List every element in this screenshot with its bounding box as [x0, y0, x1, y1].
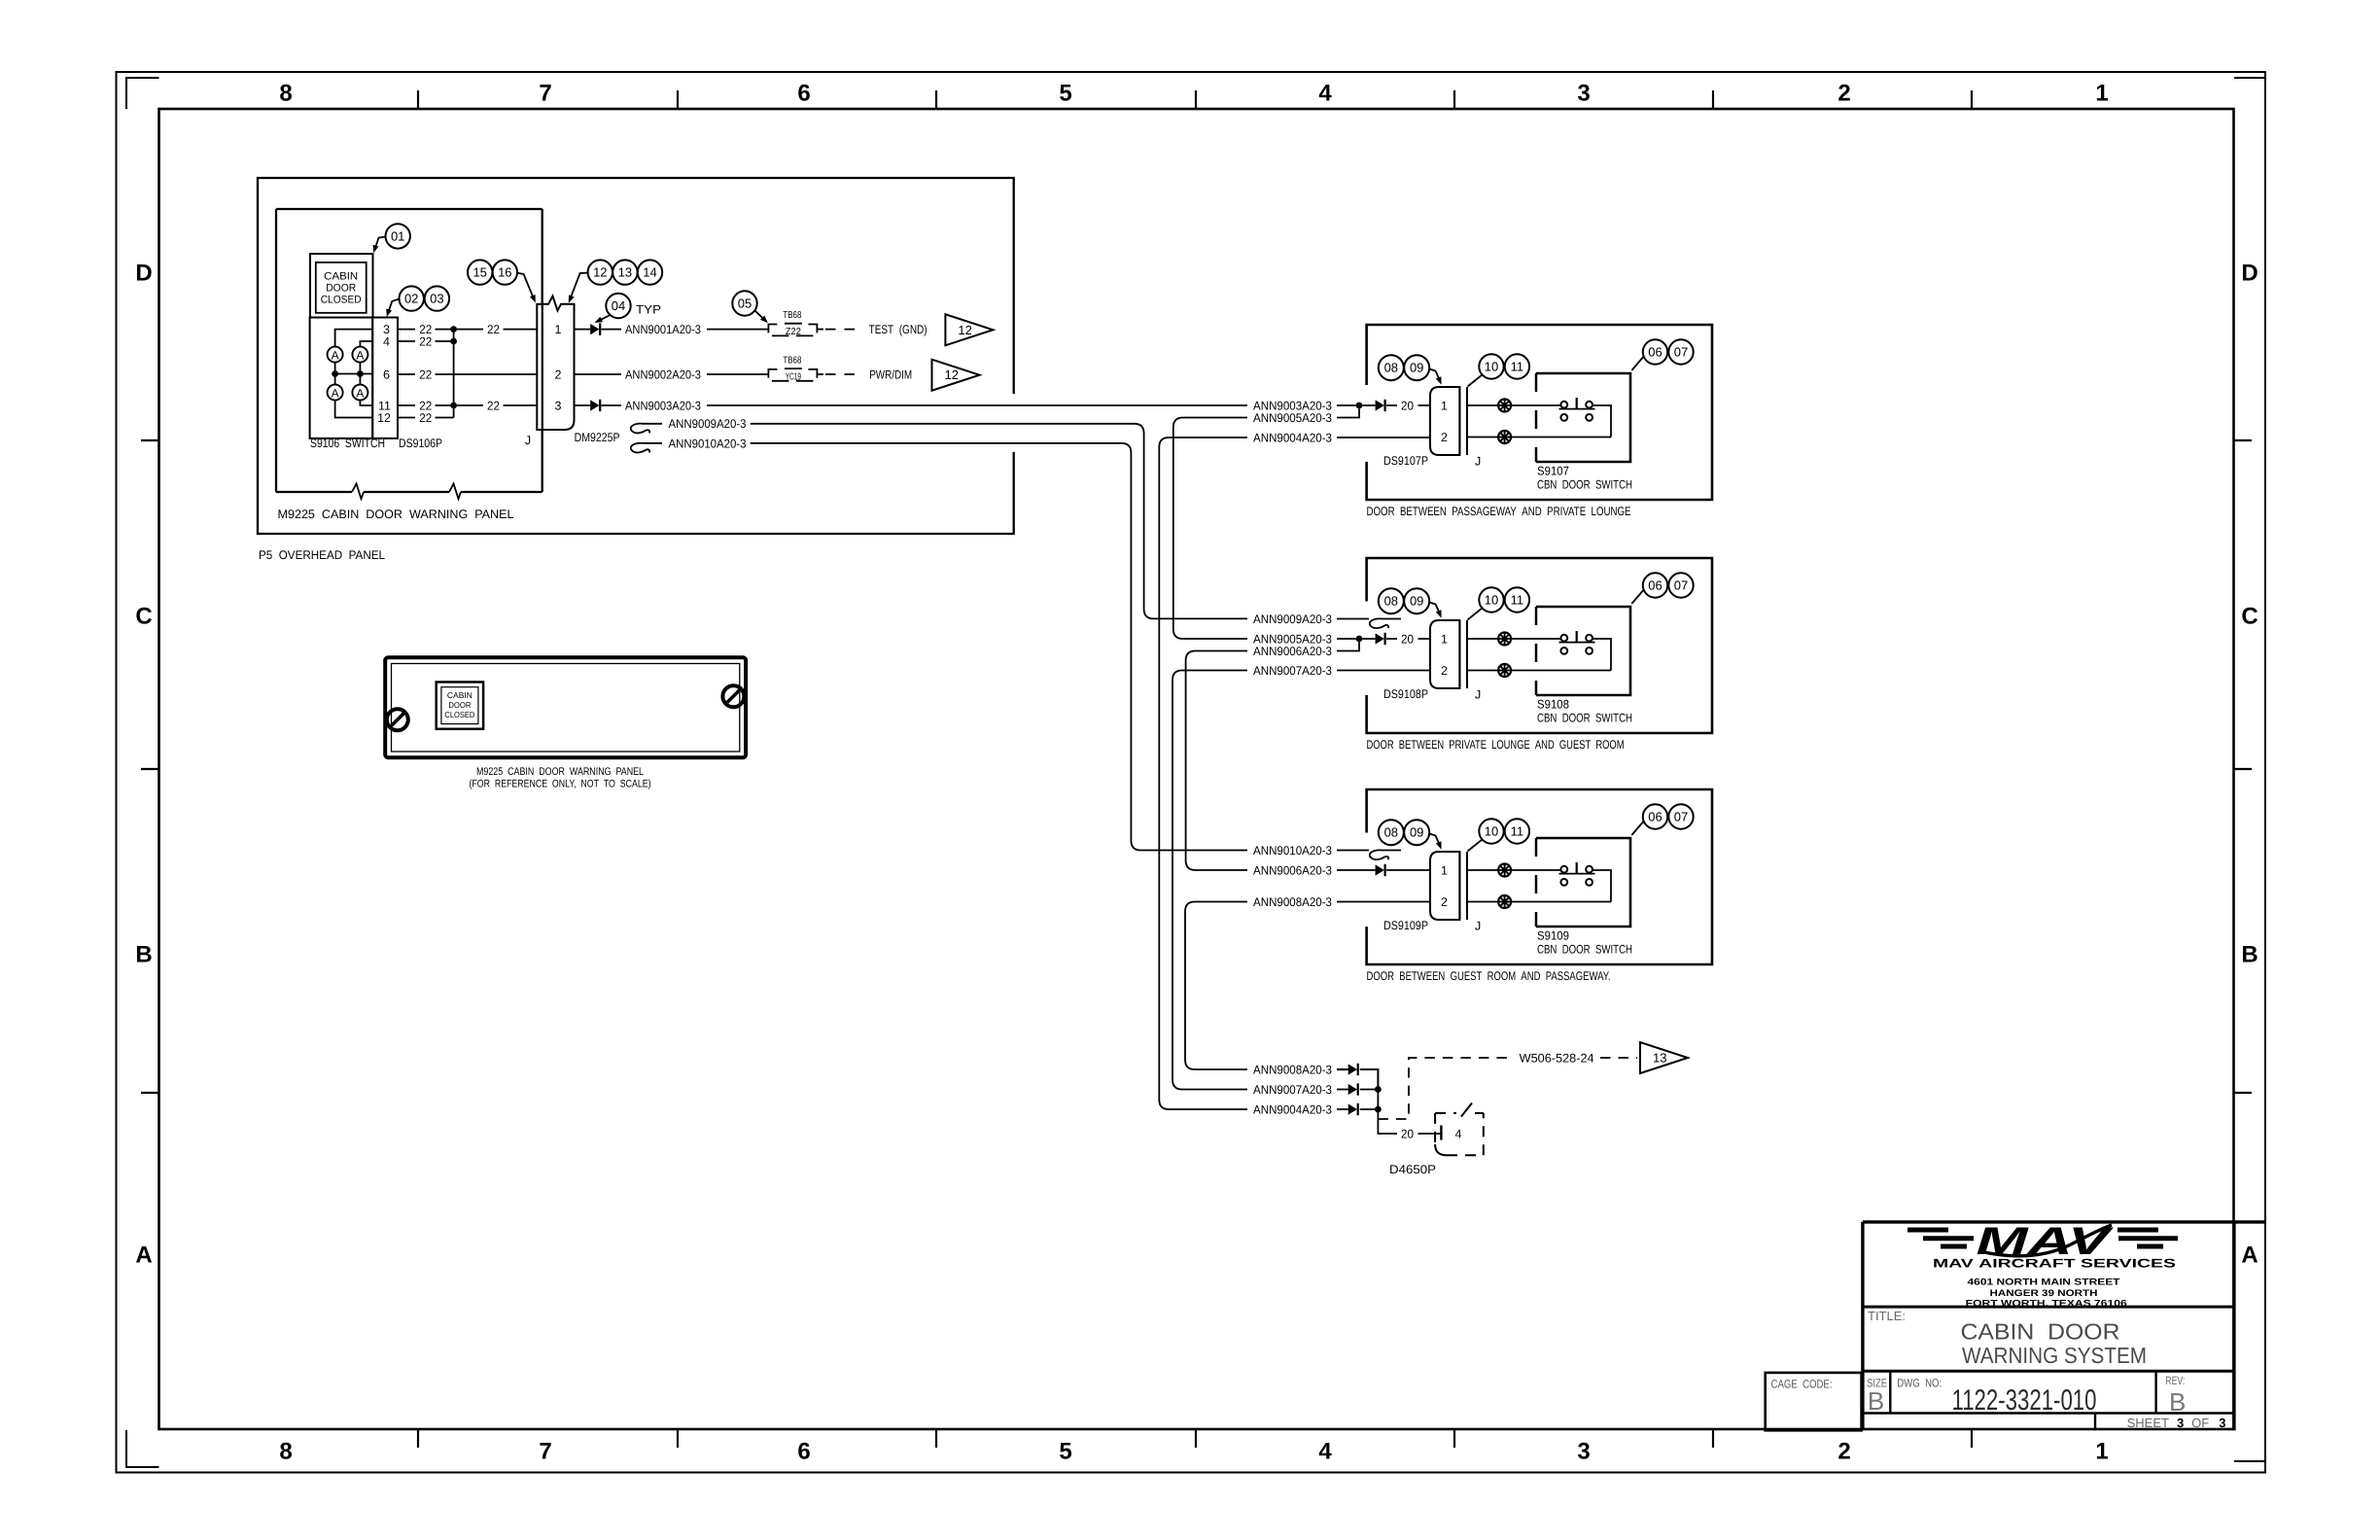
wire lamp A2 to pin6 bus [359, 363, 361, 374]
door 1 boundary box [1367, 325, 1712, 500]
break mark on M9225 box bottom right [449, 484, 461, 500]
diode ANN9007 [1348, 1084, 1357, 1095]
wire pin1 DS9107P to switch [1467, 404, 1498, 406]
callout 07 door 1 [1668, 339, 1693, 364]
wire seal pin1 S9107 [1498, 400, 1511, 412]
P5 overhead panel boundary box [258, 178, 1014, 534]
svg-text:A: A [2241, 1242, 2257, 1269]
svg-text:DOOR: DOOR [448, 700, 471, 710]
wire ANN9005 door1 to door2 [1173, 418, 1247, 640]
corner trim mark top-left [126, 78, 159, 109]
wire seal pin1 S9108 [1498, 633, 1511, 646]
svg-text:ANN9002A20-3: ANN9002A20-3 [625, 367, 701, 381]
svg-text:CABIN: CABIN [447, 690, 472, 700]
screw right [722, 685, 744, 707]
svg-text:4601 NORTH MAIN STREET: 4601 NORTH MAIN STREET [1968, 1277, 2120, 1288]
svg-text:A: A [356, 348, 364, 362]
svg-text:2: 2 [555, 368, 562, 382]
wire seal pin2 S9107 [1498, 431, 1511, 443]
svg-text:4: 4 [383, 335, 390, 349]
break mark on M9225 box bottom left [352, 484, 364, 500]
svg-text:S9109: S9109 [1537, 929, 1569, 943]
svg-text:12: 12 [958, 323, 971, 337]
switch S9108 contacts [1560, 635, 1567, 642]
callout 06 door 2 [1643, 573, 1667, 597]
svg-text:7: 7 [539, 1439, 551, 1465]
svg-text:ANN9010A20-3: ANN9010A20-3 [1253, 844, 1332, 857]
switch S9108 boundary box [1535, 607, 1538, 695]
svg-text:WARNING SYSTEM: WARNING SYSTEM [1962, 1343, 2147, 1368]
svg-text:TB68: TB68 [783, 310, 801, 321]
svg-text:DOOR BETWEEN PASSAGEWAY AND: DOOR BETWEEN PASSAGEWAY AND PRIVATE LOUN… [1367, 505, 1631, 518]
svg-text:CAGE CODE:: CAGE CODE: [1771, 1378, 1833, 1391]
svg-text:05: 05 [738, 297, 752, 311]
leader 10 door 1 [1468, 375, 1483, 387]
svg-text:ANN9007A20-3: ANN9007A20-3 [1253, 1083, 1332, 1097]
svg-text:ANN9006A20-3: ANN9006A20-3 [1253, 863, 1332, 877]
svg-text:3: 3 [1577, 81, 1590, 107]
svg-text:2: 2 [1441, 431, 1448, 444]
wire pin6 bus to lamp A3 [334, 374, 336, 385]
diode ANN9001 [590, 324, 599, 334]
svg-text:2: 2 [1837, 81, 1850, 107]
connector DS9108P plug body [1430, 620, 1459, 688]
wire lamp A1 to pin6 bus [334, 363, 336, 374]
callout 06 door 3 [1643, 804, 1667, 828]
svg-text:A: A [356, 386, 364, 400]
svg-text:09: 09 [1410, 825, 1423, 840]
svg-text:6: 6 [383, 368, 390, 382]
svg-text:4: 4 [1455, 1128, 1462, 1141]
flag 12 sheet reference PWR/DIM [932, 360, 980, 391]
svg-text:A: A [332, 348, 339, 362]
svg-text:6: 6 [797, 1439, 810, 1465]
leader 06 door 2 [1631, 590, 1643, 604]
svg-text:04: 04 [612, 298, 625, 313]
callout 08 door 1 [1379, 355, 1404, 380]
svg-text:A: A [135, 1242, 152, 1269]
wire ANN9007 to diode [1337, 1089, 1348, 1091]
svg-text:06: 06 [1648, 810, 1662, 824]
connector J socket of DS9108P [1458, 620, 1460, 688]
wire ANN9008 door3 to bottom [1185, 902, 1247, 1070]
svg-text:CBN DOOR SWITCH: CBN DOOR SWITCH [1537, 943, 1632, 957]
callout 15 [468, 260, 492, 284]
wire ANN9001 row [575, 329, 591, 331]
svg-text:DOOR: DOOR [326, 283, 356, 295]
svg-text:20: 20 [1401, 1127, 1414, 1140]
svg-text:08: 08 [1384, 594, 1398, 609]
callout 10 door 2 [1479, 587, 1503, 612]
svg-text:TYP: TYP [636, 303, 661, 317]
junction dot pin3 bus [450, 326, 457, 332]
dashed wire W506-528-24 [1378, 1058, 1513, 1119]
leader 10 door 2 [1468, 609, 1483, 620]
callout 11 door 3 [1505, 819, 1529, 843]
callout 13 [612, 260, 637, 284]
svg-text:DWG NO:: DWG NO: [1897, 1377, 1942, 1390]
switch S9106 body box [310, 318, 373, 438]
leader 01 [375, 237, 386, 250]
svg-text:DS9109P: DS9109P [1383, 919, 1428, 932]
wire ANN9010 pigtail at panel [631, 443, 662, 453]
diode ANN9008 [1348, 1064, 1357, 1074]
svg-text:14: 14 [643, 265, 656, 280]
wire pin2 DS9107P to switch [1467, 437, 1498, 438]
junction dot pin4 bus [450, 338, 457, 345]
svg-text:08: 08 [1384, 361, 1398, 375]
callout 16 [493, 260, 517, 284]
svg-text:5: 5 [1059, 81, 1071, 107]
svg-text:ANN9005A20-3: ANN9005A20-3 [1253, 411, 1332, 425]
lamp A2 [352, 347, 367, 363]
door 2 boundary box [1367, 558, 1712, 733]
svg-text:CABIN DOOR: CABIN DOOR [1961, 1319, 2120, 1345]
lamp A3 [328, 385, 343, 401]
wire ANN9003 row [575, 404, 591, 406]
svg-text:1: 1 [555, 323, 562, 336]
svg-text:16: 16 [498, 265, 511, 280]
connector D4650P dashed outline [1434, 1113, 1436, 1144]
svg-text:FORT WORTH, TEXAS 76106: FORT WORTH, TEXAS 76106 [1966, 1299, 2127, 1310]
switch S9109 boundary box [1535, 838, 1538, 927]
svg-text:CABIN: CABIN [324, 271, 358, 283]
callout 06 door 1 [1643, 339, 1667, 364]
svg-text:ANN9009A20-3: ANN9009A20-3 [1253, 612, 1332, 626]
svg-text:D: D [135, 261, 152, 287]
junction bus to D4650P pin 4 [1378, 1090, 1397, 1135]
door 3 boundary box [1367, 789, 1712, 964]
wire ANN9004A20-3 to pin2 door 1 [1337, 437, 1430, 438]
svg-text:12: 12 [593, 265, 607, 280]
wire lamp A3 to pin 12 [335, 401, 373, 418]
corner trim mark bottom-right [2234, 1460, 2264, 1462]
leader 12 [570, 273, 588, 300]
screw left [387, 709, 408, 730]
wire ANN9006A20-3 to pin1 door 3 [1337, 869, 1376, 871]
svg-text:7: 7 [539, 81, 551, 107]
junction dot pin11 bus [450, 402, 457, 409]
svg-text:1: 1 [2095, 1439, 2108, 1465]
connector DS9109P plug body [1430, 852, 1459, 920]
wire ANN9009 route to door 2 [751, 424, 1247, 619]
wire pin2 DS9108P to switch [1467, 670, 1498, 672]
wire ANN9002 row [575, 373, 622, 375]
svg-text:8: 8 [279, 1439, 292, 1465]
svg-text:5: 5 [1059, 1439, 1071, 1465]
diode ANN9003 [590, 400, 599, 410]
svg-text:22: 22 [487, 323, 500, 336]
M9225 panel face (reference drawing) [385, 657, 746, 757]
svg-text:10: 10 [1485, 593, 1498, 608]
connector DM9225P plug body [542, 297, 575, 431]
wire switch S9108 return [1592, 639, 1611, 671]
svg-text:C: C [2241, 604, 2257, 630]
callout 07 door 2 [1668, 573, 1693, 597]
svg-text:2: 2 [1837, 1439, 1850, 1465]
switch S9108 movable contact bar [1559, 642, 1595, 644]
svg-text:J: J [1475, 688, 1481, 702]
wire ANN9006 door2 to door3 [1186, 651, 1247, 871]
callout 14 [638, 260, 662, 284]
wire ANN9007 to junction [1360, 1089, 1379, 1091]
flag 12 sheet reference TEST [945, 314, 993, 345]
wire switch S9107 return [1592, 405, 1611, 437]
svg-text:4: 4 [1318, 81, 1332, 107]
svg-text:DM9225P: DM9225P [575, 431, 620, 444]
connector J socket of DS9109P [1458, 852, 1460, 920]
callout 09 door 3 [1404, 820, 1429, 845]
svg-text:02: 02 [404, 292, 418, 306]
svg-text:13: 13 [1653, 1051, 1666, 1066]
wire pin1 DS9109P to switch [1467, 869, 1498, 871]
pin 4 contact tick D4650P [1440, 1126, 1442, 1140]
wire ANN9009 pigtail at panel [631, 424, 662, 434]
switch S9107 movable contact bar [1559, 408, 1595, 410]
leader 06 door 1 [1631, 357, 1643, 370]
wire pin4 to lamp column 2 [360, 341, 372, 347]
M9225 cabin door warning panel box [276, 208, 542, 210]
callout 05 [732, 291, 756, 315]
annunciator window CABIN DOOR CLOSED [437, 682, 483, 729]
inner border frame [159, 109, 2234, 1429]
diode pin1 door 2 [1376, 633, 1384, 644]
svg-text:1122-3321-010: 1122-3321-010 [1952, 1384, 2097, 1417]
svg-text:07: 07 [1674, 578, 1688, 593]
callout 02 [400, 286, 424, 310]
title block frame [1863, 1220, 2265, 1223]
svg-text:ANN9008A20-3: ANN9008A20-3 [1253, 1063, 1332, 1076]
callout 10 door 1 [1479, 354, 1503, 378]
wire ANN9008 to diode [1337, 1068, 1348, 1070]
junction dot pin6 column1 [332, 370, 338, 377]
diode pin1 door 1 [1376, 400, 1384, 410]
wire seal pin1 S9109 [1498, 864, 1511, 877]
column ruler ticks top [417, 90, 419, 108]
svg-text:8: 8 [279, 81, 292, 107]
column ruler ticks bottom [417, 1430, 419, 1448]
svg-text:DS9106P: DS9106P [399, 437, 442, 450]
svg-text:1: 1 [1441, 632, 1448, 646]
svg-text:1: 1 [1441, 863, 1448, 877]
svg-text:DOOR BETWEEN PRIVATE LOUNGE: DOOR BETWEEN PRIVATE LOUNGE AND GUEST RO… [1367, 738, 1625, 752]
svg-text:20: 20 [1401, 632, 1414, 646]
leader 09 door 2 [1429, 603, 1440, 615]
svg-text:TITLE:: TITLE: [1868, 1309, 1906, 1323]
svg-text:S9108: S9108 [1537, 698, 1569, 712]
wire ANN9007 door2 to bottom [1172, 671, 1247, 1090]
wire seal pin2 S9108 [1498, 664, 1511, 677]
MAV logo swoosh [1979, 1225, 2112, 1256]
wire ANN9010 route to door 3 [751, 443, 1247, 851]
svg-text:06: 06 [1648, 578, 1662, 593]
svg-text:J: J [1475, 920, 1481, 933]
svg-text:1: 1 [2095, 81, 2108, 107]
wire pin6 row with 22 label [398, 373, 415, 375]
svg-text:07: 07 [1674, 345, 1688, 360]
svg-text:PWR/DIM: PWR/DIM [869, 367, 912, 381]
junction dot ANN9007 [1375, 1086, 1382, 1093]
leader 09 door 1 [1429, 369, 1440, 382]
svg-text:D4650P: D4650P [1389, 1163, 1436, 1176]
svg-text:B: B [2241, 942, 2257, 968]
svg-text:DS9107P: DS9107P [1383, 454, 1428, 468]
svg-text:6: 6 [797, 81, 810, 107]
svg-text:22: 22 [419, 367, 432, 381]
wire ANN9009A20-3 pigtail door 2 [1337, 618, 1369, 620]
wire ANN9003 panel to door 1 [707, 404, 1247, 406]
svg-text:ANN9008A20-3: ANN9008A20-3 [1253, 895, 1332, 909]
svg-text:11: 11 [1511, 360, 1524, 374]
callout 09 door 2 [1404, 588, 1429, 613]
callout 12 [588, 260, 612, 284]
connector J socket of DS9107P [1458, 387, 1460, 455]
svg-text:DOOR BETWEEN GUEST ROOM AN: DOOR BETWEEN GUEST ROOM AND PASSAGEWAY. [1367, 969, 1611, 983]
callout 01 [386, 224, 410, 248]
svg-text:HANGER 39 NORTH: HANGER 39 NORTH [1990, 1288, 2098, 1299]
svg-text:M9225 CABIN DOOR WARNING P: M9225 CABIN DOOR WARNING PANEL [278, 507, 514, 521]
svg-text:REV:: REV: [2165, 1374, 2185, 1387]
wire pin4 row with 22 label [398, 340, 415, 342]
svg-text:B: B [2169, 1387, 2186, 1417]
lamp A4 [352, 385, 367, 401]
annunciator CABIN DOOR CLOSED legend box [310, 254, 373, 318]
svg-text:ANN9004A20-3: ANN9004A20-3 [1253, 1102, 1332, 1116]
callout 10 door 3 [1479, 819, 1503, 843]
callout 08 door 3 [1379, 820, 1404, 845]
test bus vertical wire [453, 330, 455, 418]
svg-text:CLOSED: CLOSED [321, 295, 362, 306]
svg-text:22: 22 [419, 334, 432, 348]
svg-text:12: 12 [945, 367, 959, 382]
wire ANN9008A20-3 to pin2 door 3 [1337, 901, 1430, 903]
wire pin6 row [335, 373, 373, 375]
svg-text:1: 1 [1441, 399, 1448, 412]
svg-text:4: 4 [1318, 1439, 1332, 1465]
switch S9109 plunger [1576, 862, 1578, 874]
leader 04 [597, 315, 611, 322]
callout 11 door 2 [1505, 587, 1529, 612]
connector DS9106P pin box [372, 318, 398, 438]
wire pin3 to lamp column 1 [335, 330, 373, 347]
corner trim mark bottom-left [126, 1430, 159, 1467]
leader 09 door 3 [1429, 834, 1440, 847]
svg-text:10: 10 [1485, 360, 1498, 374]
leader 16 [517, 273, 535, 300]
junction dot ANN9004 [1375, 1106, 1382, 1113]
svg-text:22: 22 [419, 411, 432, 425]
svg-text:P5 OVERHEAD PANEL: P5 OVERHEAD PANEL [259, 548, 385, 562]
svg-text:13: 13 [618, 265, 632, 280]
dashed continuation PWR/DIM [825, 373, 859, 375]
svg-text:J: J [525, 434, 531, 447]
wire lamp A4 to pin 11 [360, 401, 372, 405]
svg-text:22: 22 [487, 399, 500, 412]
svg-text:ANN9007A20-3: ANN9007A20-3 [1253, 664, 1332, 678]
cage code box [1766, 1373, 1862, 1430]
svg-text:CBN DOOR SWITCH: CBN DOOR SWITCH [1537, 712, 1632, 725]
wire pin12 row with 22 label [398, 417, 415, 419]
wire ANN9004 to diode [1337, 1108, 1348, 1110]
switch S9107 plunger [1576, 398, 1578, 409]
svg-text:ANN9001A20-3: ANN9001A20-3 [625, 323, 701, 336]
wire pin1 DS9108P to switch [1467, 638, 1498, 640]
svg-text:ANN9010A20-3: ANN9010A20-3 [669, 437, 747, 450]
svg-text:M9225 CABIN DOOR WARNING P: M9225 CABIN DOOR WARNING PANEL [476, 766, 644, 778]
svg-text:DS9108P: DS9108P [1383, 687, 1428, 701]
svg-text:15: 15 [472, 265, 486, 280]
svg-text:D: D [2241, 261, 2257, 287]
svg-text:11: 11 [1511, 824, 1524, 839]
diode pin1 door 3 [1376, 864, 1384, 875]
wire ANN9004 to junction [1360, 1108, 1379, 1110]
wire ANN9008 to junction [1360, 1069, 1379, 1090]
callout 04 TYP [606, 294, 630, 318]
leader 06 door 3 [1631, 822, 1643, 835]
wire switch S9109 return [1592, 870, 1611, 902]
svg-text:ANN9003A20-3: ANN9003A20-3 [625, 399, 701, 412]
connector J socket [537, 304, 542, 430]
switch contact slash D4650P [1461, 1103, 1472, 1117]
switch S9109 movable contact bar [1559, 873, 1595, 875]
wire seal pin2 S9109 [1498, 895, 1511, 908]
row ruler ticks right [2233, 439, 2252, 441]
wire pin11 row with 22 labels [398, 404, 415, 406]
svg-text:A: A [332, 386, 339, 400]
svg-text:MAV AIRCRAFT SERVICES: MAV AIRCRAFT SERVICES [1933, 1257, 2176, 1271]
switch S9108 plunger [1576, 631, 1578, 643]
svg-text:2: 2 [1441, 895, 1448, 909]
connector DS9107P plug body [1430, 387, 1459, 455]
svg-text:08: 08 [1384, 825, 1398, 840]
svg-text:11: 11 [1511, 593, 1524, 608]
svg-text:W506-528-24: W506-528-24 [1520, 1051, 1594, 1065]
MAV logo speed lines left [1907, 1228, 1948, 1233]
svg-text:ANN9006A20-3: ANN9006A20-3 [1253, 645, 1332, 658]
svg-text:20: 20 [1401, 399, 1414, 412]
svg-text:(FOR REFERENCE ONLY, NOT T: (FOR REFERENCE ONLY, NOT TO SCALE) [470, 779, 651, 790]
switch S9107 boundary box [1535, 373, 1538, 462]
junction dot pin6 column2 [357, 370, 364, 377]
wire pin3 row with 22 gauge labels [398, 329, 415, 331]
flag 13 sheet reference [1640, 1042, 1688, 1073]
svg-text:12: 12 [377, 411, 391, 425]
leader 02 [388, 299, 400, 314]
MAV logo speed lines right [2117, 1228, 2158, 1233]
wire ANN9005A20-3 tee up to pin1 node door 1 [1337, 408, 1359, 417]
svg-text:07: 07 [1674, 810, 1688, 824]
corner trim mark top-right [2234, 77, 2264, 79]
svg-text:J: J [1475, 455, 1481, 469]
lamp A1 [328, 347, 343, 363]
svg-text:3: 3 [555, 400, 562, 413]
svg-text:ANN9009A20-3: ANN9009A20-3 [669, 417, 747, 431]
svg-text:C: C [135, 604, 152, 630]
callout 07 door 3 [1668, 804, 1693, 828]
dashed continuation TEST [825, 329, 859, 331]
svg-text:09: 09 [1410, 594, 1423, 609]
callout 11 door 1 [1505, 354, 1529, 378]
wire pin6 bus to lamp A4 [359, 374, 361, 385]
wire ANN9006A20-3 tee up to pin1 node door 2 [1337, 642, 1359, 650]
callout 08 door 2 [1379, 588, 1404, 613]
leader 10 door 3 [1468, 840, 1483, 852]
svg-text:B: B [1868, 1386, 1884, 1416]
wire ANN9004 door1 to bottom [1159, 437, 1247, 1109]
svg-text:2: 2 [1441, 664, 1448, 678]
callout 09 door 1 [1404, 355, 1429, 380]
row ruler ticks left [141, 439, 159, 441]
